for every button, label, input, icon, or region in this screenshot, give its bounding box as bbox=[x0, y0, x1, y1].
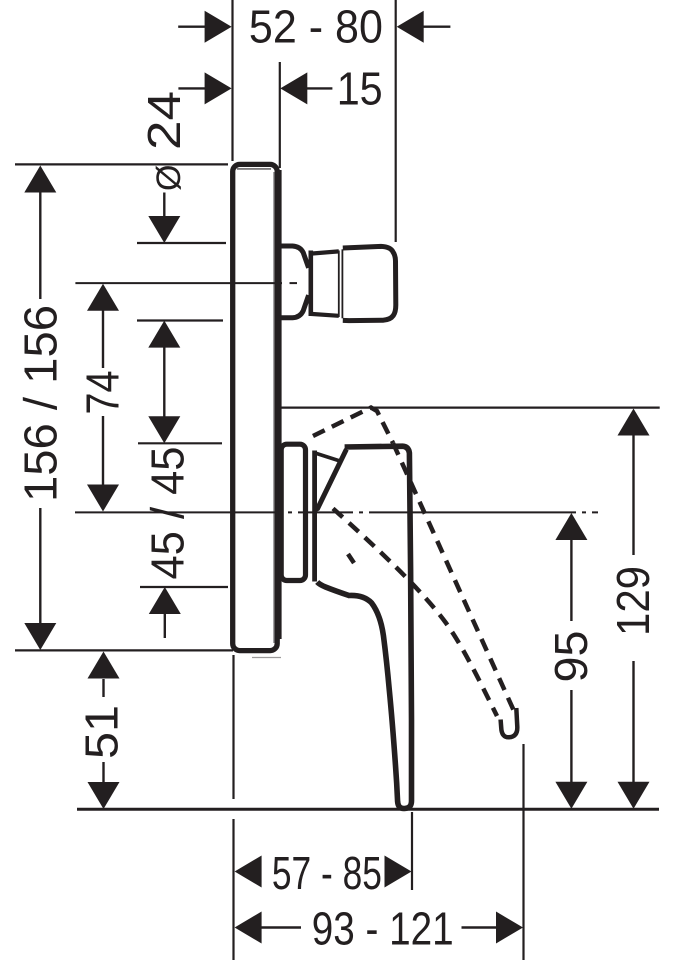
svg-text:57 - 85: 57 - 85 bbox=[272, 847, 382, 899]
svg-text:15: 15 bbox=[337, 62, 383, 114]
svg-text:93 - 121: 93 - 121 bbox=[312, 903, 454, 955]
svg-text:51: 51 bbox=[76, 705, 128, 759]
svg-text:45 / 45: 45 / 45 bbox=[142, 447, 194, 580]
svg-text:129: 129 bbox=[607, 566, 659, 636]
svg-text:Ø24: Ø24 bbox=[138, 91, 190, 191]
svg-text:95: 95 bbox=[545, 631, 597, 683]
svg-text:52 - 80: 52 - 80 bbox=[249, 1, 383, 53]
svg-text:74: 74 bbox=[77, 371, 129, 415]
svg-text:156 / 156: 156 / 156 bbox=[15, 305, 67, 502]
